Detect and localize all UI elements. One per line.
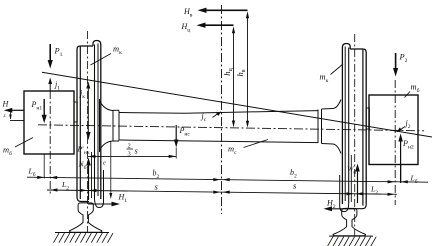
svg-text:s: s [135, 147, 138, 156]
axle wheel seat right [322, 109, 334, 145]
label N_b [78, 160, 87, 172]
tilted axle axis line [42, 72, 432, 137]
svg-text:e: e [103, 161, 106, 167]
label L_b left [28, 167, 36, 179]
svg-text:3: 3 [128, 151, 131, 158]
label H [2, 100, 10, 109]
axle hub face left [99, 99, 101, 152]
force P1 arrow [48, 44, 53, 69]
axle bottom line [113, 140, 318, 143]
ground hatching left [54, 233, 114, 243]
label P_nk [77, 145, 90, 157]
force H2 arrow [324, 206, 356, 211]
label H_v [183, 7, 193, 18]
label m_b right + leader [405, 83, 420, 98]
s arrows [50, 188, 394, 196]
axle step lines right [318, 109, 322, 144]
wheel left centerline [87, 31, 89, 233]
label L2 left [61, 180, 69, 192]
wheel left tread bottom [77, 197, 89, 202]
force P_nk arrow head [86, 132, 91, 140]
wheel right rim inner line [362, 49, 364, 206]
wheel right rim outer face [363, 49, 366, 205]
dimension line s [47, 190, 397, 194]
wheel left rim top [80, 45, 93, 47]
label s right [293, 181, 297, 191]
wheel left rim outer face [77, 46, 80, 197]
label s left [155, 182, 159, 192]
small journal step left [74, 102, 77, 122]
wheel left flange bottom loop [95, 170, 104, 208]
acceleration j1 arrow [48, 78, 52, 92]
main vertical centerline [221, 5, 223, 214]
label P2 [399, 53, 408, 65]
wheel right flange bottom loop [340, 175, 349, 212]
label P_n1 [31, 100, 43, 112]
extension line under P_n1 [43, 154, 45, 179]
wheel right flange inner line [348, 48, 350, 204]
label P_nc [179, 126, 191, 138]
z offset dimension [3, 110, 25, 120]
wheel right flange profile [342, 44, 350, 205]
label j_k [79, 89, 85, 101]
wheel right rim top [350, 48, 363, 50]
label m_c + leader [228, 140, 268, 157]
axle top fillet right [333, 100, 341, 109]
force P2 arrow [393, 53, 398, 77]
axle top line [113, 110, 318, 113]
extension line right L_b [400, 165, 402, 184]
journal box right m_b [369, 95, 418, 165]
axle horizontal centerline [38, 125, 424, 131]
axle bottom fillet left [100, 141, 114, 151]
axle step lines left [113, 110, 119, 141]
wheel right extra web line [345, 47, 351, 203]
wheel left flange profile [93, 41, 101, 200]
svg-text:2: 2 [128, 143, 131, 150]
rail right [333, 208, 365, 235]
force P_n2 arrow [398, 134, 403, 184]
label P_n2 [402, 139, 414, 151]
label P1 [54, 47, 63, 59]
acceleration j_k arrow [86, 82, 90, 134]
label 2/3 s [127, 143, 138, 158]
label L_b right [410, 174, 418, 186]
height line h_c [232, 26, 235, 127]
contact offset line with arrow [109, 141, 112, 199]
label H1 [118, 193, 128, 205]
label j_c + leader [201, 111, 222, 123]
label j1 [54, 80, 60, 92]
label W_b [347, 165, 356, 177]
small journal step right [366, 108, 369, 129]
rail reaction N_b arrow [86, 158, 91, 201]
wheel left extra web line [92, 44, 99, 199]
force H arrow [4, 108, 24, 113]
label m_b left + leader [3, 138, 33, 158]
dimension line 2/3 s [88, 155, 176, 158]
force P_nc arrow [174, 125, 179, 159]
axle top fillet left [100, 101, 114, 111]
label m_k right + leader [320, 64, 344, 84]
axle bottom fillet right [333, 144, 341, 154]
label b2 right [290, 168, 297, 180]
journal box left m_b [24, 91, 74, 154]
label L2 right [370, 185, 378, 197]
right box centerline [394, 80, 396, 205]
dimension line b2 [27, 177, 428, 182]
force H_v arrow [198, 8, 248, 13]
height line h_v [246, 11, 249, 128]
rail left [70, 203, 102, 232]
rail reaction W_b arrow [355, 164, 360, 204]
label m_k left + leader [91, 45, 123, 66]
wheel right centerline [354, 34, 356, 236]
label j2 + leader [397, 119, 411, 133]
label H_c [181, 22, 191, 34]
label b2 left [153, 169, 160, 181]
force H1 arrow [88, 202, 120, 207]
b2 arrows right [388, 180, 408, 183]
left box centerline [49, 91, 51, 195]
wheel left rim inner line [79, 46, 81, 199]
ground hatching right [328, 236, 377, 246]
force P_n1 arrow [42, 99, 47, 123]
force H_c arrow [197, 23, 234, 28]
wheel left flange inner line [94, 45, 96, 198]
b2 arrows left [37, 176, 230, 181]
label H2 [326, 199, 336, 211]
label e [103, 161, 106, 167]
label h_c rotated [222, 67, 234, 75]
label h_v rotated [235, 69, 247, 76]
wheel right tread bottom [353, 205, 366, 209]
